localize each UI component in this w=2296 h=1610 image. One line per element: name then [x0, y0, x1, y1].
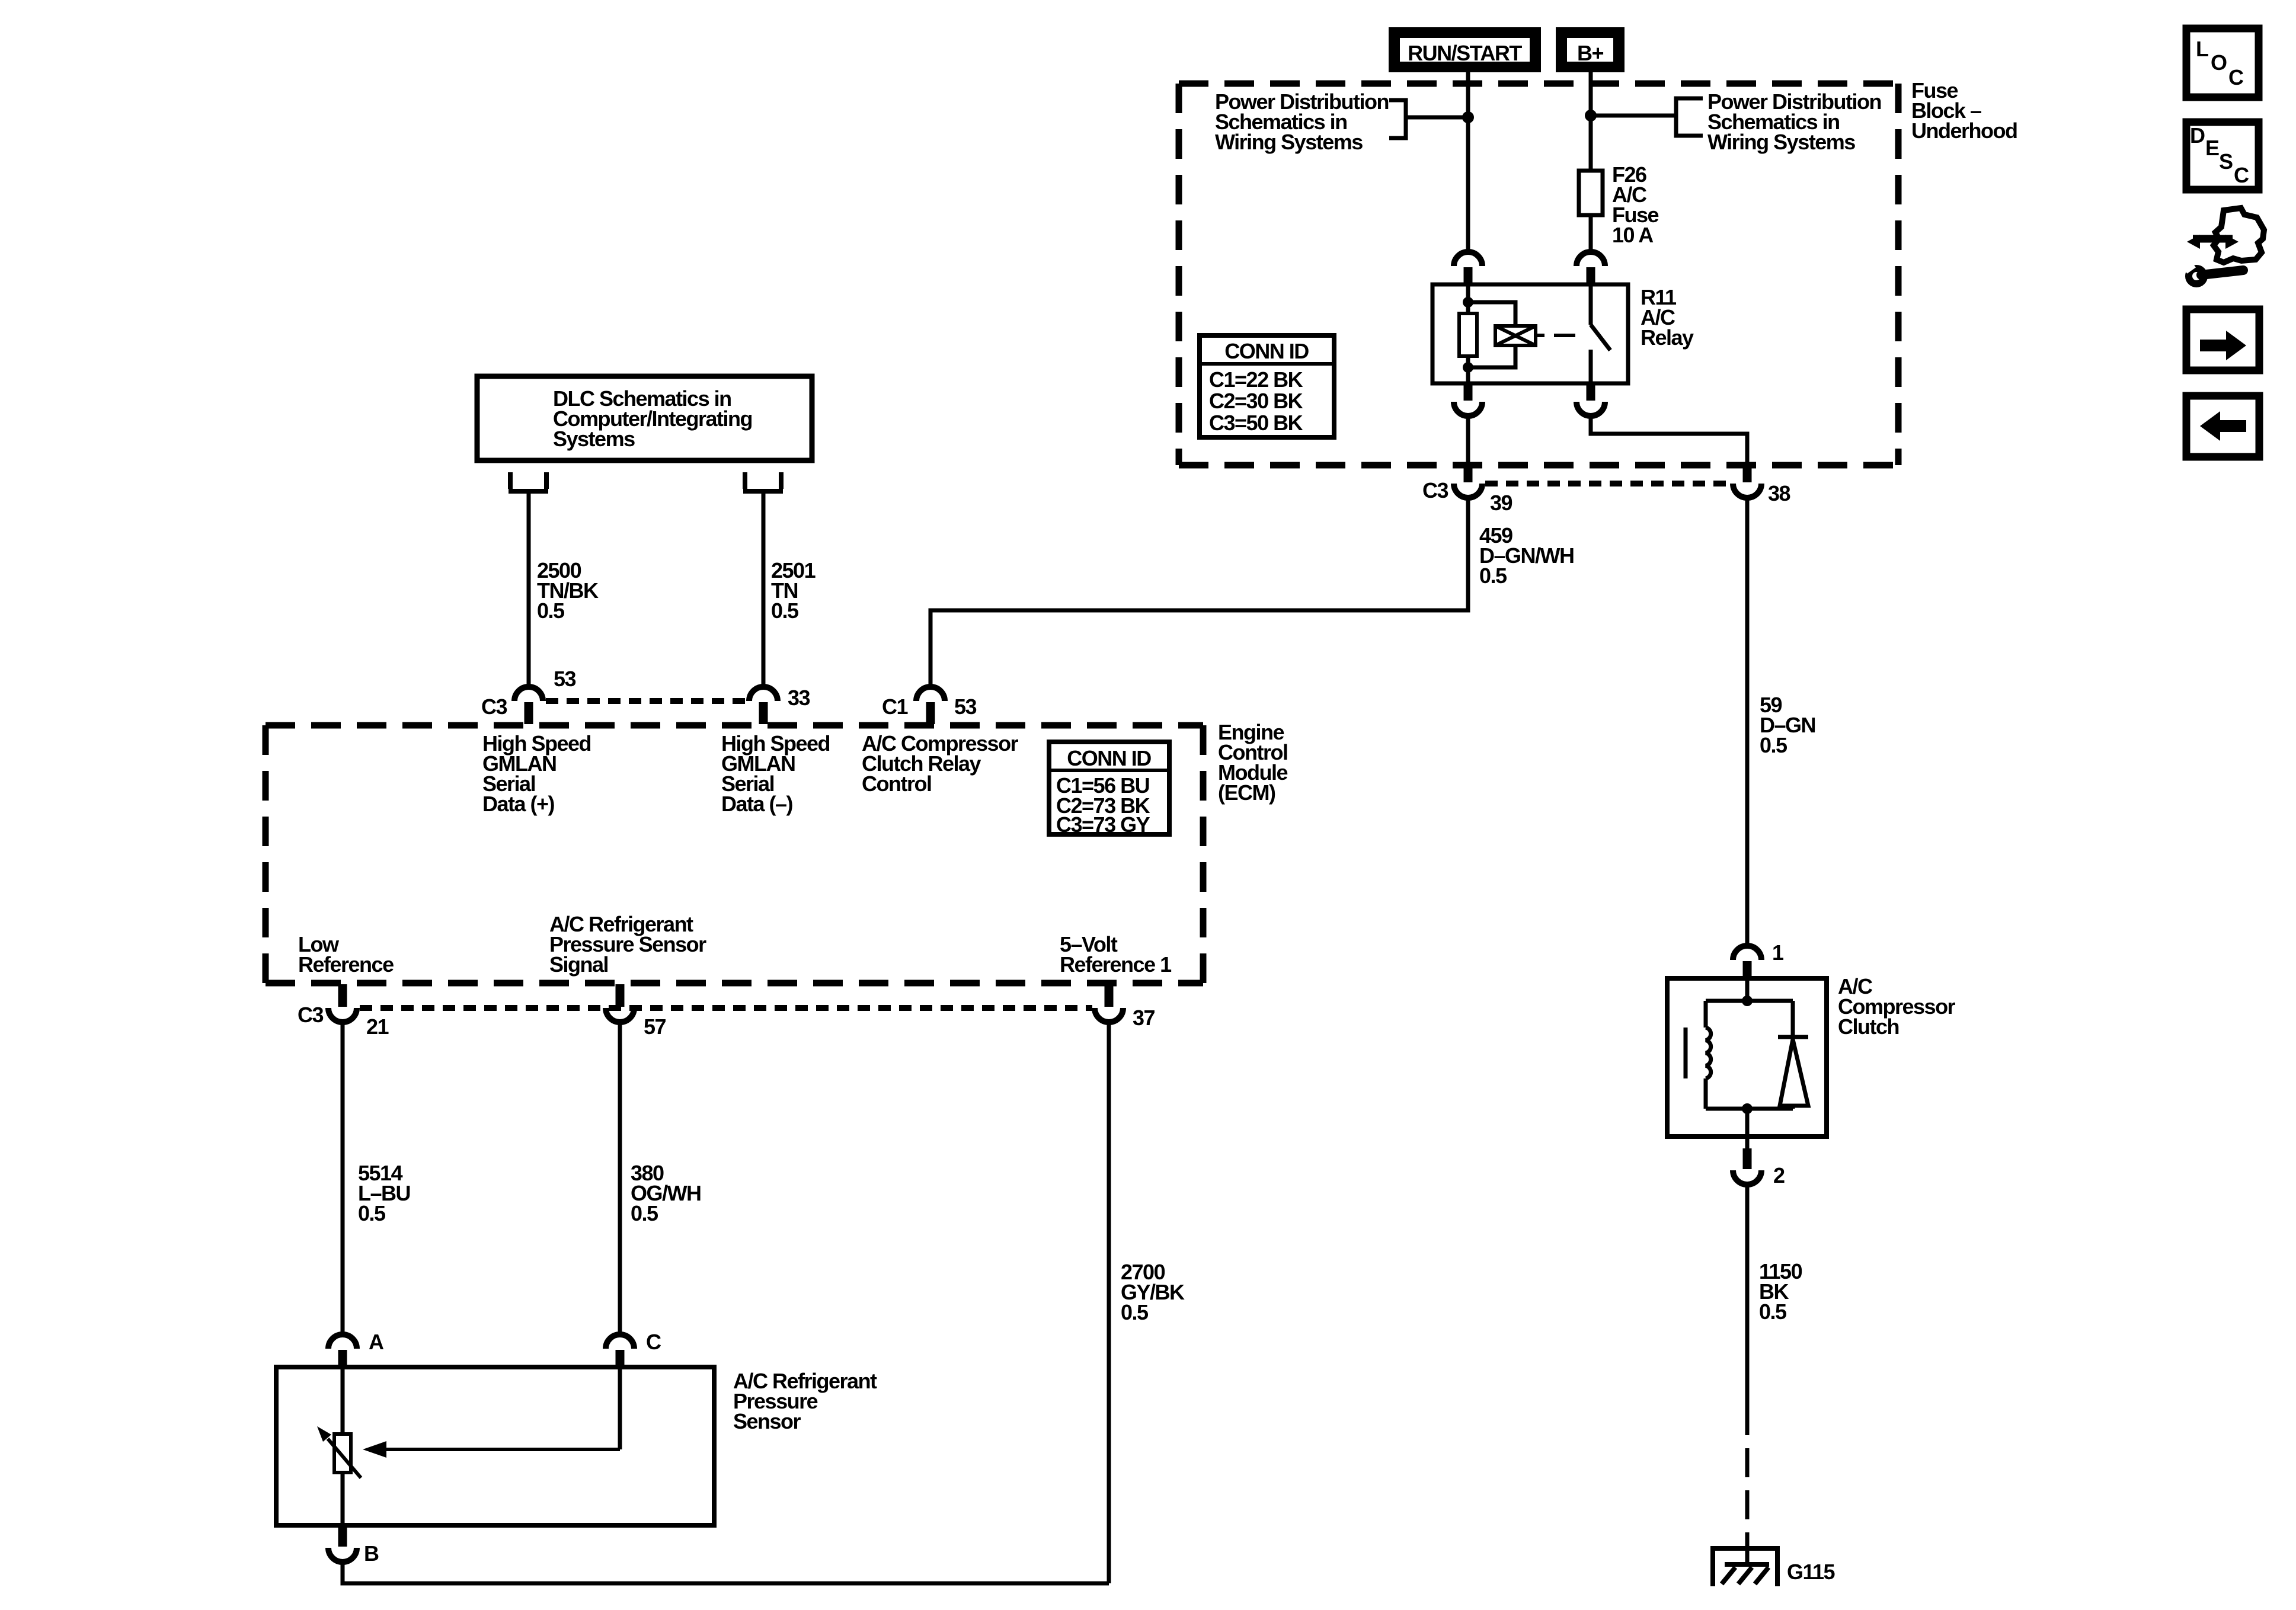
svg-text:E: E: [2205, 136, 2219, 160]
svg-text:Reference: Reference: [298, 952, 394, 977]
wire relay 85 down to C3 connector: [1466, 416, 1470, 466]
resistor (relay internal): [1459, 313, 1477, 356]
wire 2500 TN/BK 0.5: [527, 491, 531, 687]
svg-text:B: B: [364, 1541, 379, 1566]
relay switch contact lower: [1589, 350, 1593, 383]
connector C3 pin 39 of fuse block: [1454, 466, 1482, 498]
wire B+ down to fuse F26: [1589, 72, 1593, 171]
svg-text:C3: C3: [481, 694, 507, 719]
fuse block - underhood dashed outline: [1179, 84, 1898, 465]
label 1150 BK 0.5: [1759, 1259, 1802, 1324]
relay R11 box: [1432, 284, 1628, 383]
svg-text:RUN/START: RUN/START: [1408, 41, 1522, 65]
svg-text:0.5: 0.5: [537, 598, 565, 623]
label R11 A/C Relay: [1641, 285, 1694, 350]
wire pin C to wiper: [618, 1367, 622, 1449]
svg-text:B+: B+: [1577, 41, 1603, 65]
svg-text:C3=50 BK: C3=50 BK: [1209, 411, 1303, 435]
svg-text:S: S: [2219, 149, 2233, 174]
svg-text:21: 21: [366, 1014, 389, 1039]
CONN ID table of ECM: [1049, 742, 1169, 837]
node DLC Schematics box: [477, 376, 812, 460]
connector pin 57 of ECM: [606, 984, 634, 1022]
svg-text:C1: C1: [882, 694, 908, 719]
node relay inner junction top: [1463, 297, 1473, 308]
clutch coil winding: [1706, 1028, 1711, 1078]
svg-text:0.5: 0.5: [1479, 564, 1507, 588]
label A/C Refrigerant Pressure Sensor Signal: [549, 912, 706, 977]
connector C3 pin 53 at ECM: [514, 687, 543, 724]
wire bracket to RUN/START feed: [1406, 116, 1468, 120]
wire parallel branch to relay coil: [1468, 302, 1515, 326]
clutch inner loop bottom: [1706, 1107, 1793, 1111]
svg-text:0.5: 0.5: [1121, 1300, 1149, 1324]
svg-text:Wiring Systems: Wiring Systems: [1707, 130, 1855, 154]
mechanical link dashes: [1536, 334, 1575, 337]
wire resistor bottom: [1466, 356, 1470, 383]
connector dotted line 39 to 38: [1485, 481, 1731, 486]
svg-text:0.5: 0.5: [1760, 733, 1787, 757]
icon next arrow button: [2186, 309, 2259, 370]
svg-text:L: L: [2196, 37, 2208, 61]
svg-text:0.5: 0.5: [358, 1201, 386, 1225]
wire resistor to box bottom: [341, 1473, 345, 1525]
icon back arrow button: [2186, 396, 2259, 457]
svg-text:C3=73 GY: C3=73 GY: [1056, 812, 1150, 837]
label Engine Control Module (ECM): [1218, 720, 1287, 805]
connector dotted line 21 to 37: [360, 1005, 1092, 1011]
icon DESC button: [2186, 122, 2259, 190]
A/C refrigerant pressure sensor box: [276, 1367, 714, 1525]
svg-text:CONN ID: CONN ID: [1224, 339, 1309, 363]
wire 380 OG/WH 0.5: [618, 1022, 622, 1334]
svg-text:Signal: Signal: [549, 952, 608, 977]
label A/C Compressor Clutch: [1838, 974, 1956, 1039]
wire 2501 TN 0.5: [762, 491, 766, 687]
connector half pair above relay pin 86: [1454, 252, 1482, 284]
connector pin B of sensor: [328, 1526, 357, 1562]
svg-text:Data (+): Data (+): [482, 792, 555, 816]
svg-text:0.5: 0.5: [1759, 1299, 1787, 1324]
svg-text:38: 38: [1768, 481, 1790, 505]
svg-text:O: O: [2211, 50, 2227, 75]
label 2501 TN 0.5: [771, 558, 816, 623]
svg-text:C: C: [646, 1330, 661, 1354]
label 380 OG/WH 0.5: [631, 1161, 701, 1225]
svg-text:0.5: 0.5: [631, 1201, 658, 1225]
connector half pair below relay pin 87: [1576, 384, 1605, 416]
svg-text:33: 33: [788, 686, 810, 710]
clutch coil core bar: [1684, 1028, 1688, 1078]
svg-text:A: A: [369, 1330, 384, 1354]
variable resistor (sensor element): [334, 1434, 351, 1473]
DLC output bracket left: [509, 472, 548, 491]
connector pin C of sensor: [606, 1334, 634, 1366]
DLC output bracket right: [743, 472, 783, 491]
svg-text:Control: Control: [862, 772, 931, 796]
svg-text:D: D: [2190, 123, 2205, 148]
clutch coil lower leg: [1704, 1078, 1708, 1109]
CONN ID table of fuse block: [1200, 335, 1334, 437]
svg-text:Sensor: Sensor: [733, 1409, 801, 1433]
label A/C Refrigerant Pressure Sensor: [733, 1369, 877, 1433]
label 59 D-GN 0.5: [1760, 693, 1815, 757]
node junction on B+ feed: [1585, 110, 1597, 121]
svg-text:Relay: Relay: [1641, 325, 1694, 350]
off-page bracket right: [1676, 98, 1703, 136]
clutch coil left leg: [1704, 1001, 1708, 1028]
off-page bracket left: [1389, 100, 1406, 138]
relay coil branch wire: [1466, 284, 1470, 313]
wire relay 87 to fuse block pin 38: [1591, 416, 1747, 466]
label Power Distribution (left): [1215, 89, 1389, 154]
svg-text:C: C: [2234, 163, 2249, 187]
svg-text:37: 37: [1133, 1006, 1155, 1030]
wire pin 1 into clutch: [1745, 978, 1750, 1001]
connector pin 37 of ECM: [1095, 984, 1123, 1022]
svg-text:C3: C3: [1422, 478, 1448, 502]
wire pin A to sense resistor: [341, 1367, 345, 1434]
wire 2700 GY/BK 0.5: [1107, 1022, 1111, 1583]
diode branch lower wire: [1791, 1106, 1795, 1109]
svg-text:53: 53: [954, 694, 977, 719]
svg-text:C: C: [2228, 65, 2244, 89]
node junction on RUN/START feed: [1462, 111, 1474, 123]
connector pin 38 of fuse block: [1733, 466, 1761, 498]
fuse F26: [1579, 171, 1603, 215]
label 459 D-GN/WH 0.5: [1479, 523, 1574, 588]
wire RUN/START down to relay: [1466, 72, 1470, 252]
label A/C Compressor Clutch Relay Control: [862, 731, 1019, 796]
connector pin 33 at ECM: [749, 687, 778, 724]
svg-text:CONN ID: CONN ID: [1067, 746, 1151, 770]
svg-text:C1=22 BK: C1=22 BK: [1209, 367, 1303, 392]
label 2500 TN/BK 0.5: [537, 558, 599, 623]
icon vehicle diagnostic (car with wrench): [2182, 208, 2264, 284]
svg-text:G115: G115: [1787, 1560, 1835, 1584]
connector half pair above relay pin 30: [1576, 252, 1605, 284]
svg-text:C3: C3: [298, 1003, 323, 1027]
svg-text:Systems: Systems: [553, 427, 635, 451]
connector C1 pin 53 at ECM: [916, 687, 945, 724]
node relay inner junction bottom: [1463, 362, 1473, 373]
ECM dashed outline: [266, 725, 1203, 983]
wire 459 D-GN/WH 0.5: [930, 498, 1468, 687]
label F26 A/C Fuse 10 A: [1612, 162, 1659, 247]
svg-text:0.5: 0.5: [771, 598, 799, 623]
wire 5514 L-BU 0.5: [341, 1022, 345, 1334]
label High Speed GMLAN Serial Data (+): [482, 731, 591, 816]
svg-text:39: 39: [1490, 491, 1512, 515]
diode branch upper wire: [1791, 1001, 1795, 1037]
svg-text:10 A: 10 A: [1612, 223, 1654, 247]
wiper arrow: [363, 1441, 620, 1458]
svg-text:57: 57: [644, 1014, 666, 1039]
svg-text:C2=30 BK: C2=30 BK: [1209, 389, 1303, 413]
svg-text:53: 53: [554, 667, 576, 691]
svg-text:2: 2: [1773, 1163, 1785, 1188]
svg-text:Reference 1: Reference 1: [1060, 952, 1172, 977]
connector half pair below relay pin 85: [1454, 384, 1482, 416]
relay switch contact upper: [1589, 284, 1593, 325]
wire junction to bracket right: [1591, 114, 1676, 118]
label 5514 L-BU 0.5: [358, 1161, 410, 1225]
label High Speed GMLAN Serial Data (-): [721, 731, 830, 816]
svg-text:Wiring Systems: Wiring Systems: [1215, 130, 1363, 154]
wire 59 D-GN 0.5: [1745, 498, 1750, 946]
wire clutch to pin 2: [1745, 1109, 1750, 1150]
A/C compressor clutch box: [1667, 978, 1827, 1137]
connector pin A of sensor: [328, 1334, 357, 1366]
svg-text:Underhood: Underhood: [1911, 119, 2017, 143]
wire fuse to relay: [1589, 215, 1593, 252]
label 2700 GY/BK 0.5: [1121, 1260, 1185, 1324]
connector dotted line 53 to 33: [546, 698, 746, 704]
node B+ feed box: [1556, 27, 1625, 72]
ground G115: [1713, 1548, 1777, 1586]
label Fuse Block - Underhood: [1911, 78, 2017, 143]
node RUN/START feed box: [1389, 27, 1541, 72]
relay switch blade: [1591, 325, 1610, 350]
wire pin B to ECM pin 37: [343, 1562, 1109, 1583]
wire 1150 BK 0.5: [1745, 1185, 1750, 1435]
node clutch junction bottom: [1742, 1103, 1753, 1114]
connector pin 1 of clutch: [1733, 946, 1761, 977]
clutch inner loop top: [1706, 999, 1793, 1003]
svg-text:(ECM): (ECM): [1218, 780, 1275, 805]
variable resistor diagonal arrow: [317, 1426, 361, 1478]
icon LOC button: [2186, 28, 2259, 97]
connector C3 pin 21 of ECM: [328, 984, 357, 1022]
label Low Reference: [298, 932, 394, 977]
svg-text:1: 1: [1772, 940, 1784, 965]
node clutch junction top: [1742, 996, 1753, 1006]
connector pin 2 of clutch: [1733, 1148, 1761, 1185]
label 5-Volt Reference 1: [1060, 932, 1172, 977]
diode D (clamping): [1778, 1037, 1808, 1106]
wire dashed section to ground: [1745, 1448, 1750, 1536]
label Power Distribution (right): [1707, 89, 1881, 154]
wire into ground: [1745, 1535, 1750, 1563]
svg-text:Data (–): Data (–): [721, 792, 793, 816]
relay coil (box with X): [1495, 326, 1536, 345]
svg-text:Clutch: Clutch: [1838, 1014, 1899, 1039]
wire coil bottom back to junction: [1468, 345, 1515, 367]
